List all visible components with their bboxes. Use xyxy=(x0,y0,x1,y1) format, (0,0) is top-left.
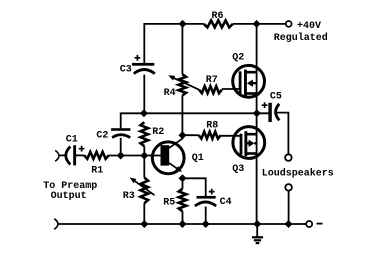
capacitor C5 xyxy=(268,103,271,122)
svg-text:R8: R8 xyxy=(206,121,218,132)
node negative supply terminal xyxy=(306,221,312,227)
input terminal arc xyxy=(55,150,59,161)
junction on top rail at Q2 drain xyxy=(253,20,261,28)
svg-text:R7: R7 xyxy=(206,75,218,86)
wire C5 output to speaker column xyxy=(276,113,289,155)
svg-text:R1: R1 xyxy=(91,165,103,176)
svg-text:C4: C4 xyxy=(220,197,232,208)
R3 wiper arrow xyxy=(132,179,155,195)
junction base line at R2/R3 xyxy=(140,152,148,160)
junction bottom rail ground xyxy=(253,220,261,228)
wire C1 to R1 xyxy=(76,154,84,156)
junction on top rail at R4 branch xyxy=(179,20,187,28)
junction node line at Q2 source xyxy=(253,109,261,117)
resistor R6 xyxy=(204,20,233,27)
wire R4 branch from top rail xyxy=(181,24,183,74)
wire R3 bottom lead xyxy=(143,203,145,224)
capacitor C3 xyxy=(132,63,154,66)
wire top supply rail xyxy=(144,23,204,25)
svg-text:C2: C2 xyxy=(96,131,108,142)
node loudspeaker terminal top xyxy=(285,154,292,161)
wire emitter node to C4 xyxy=(183,178,206,196)
wire main output column xyxy=(256,24,258,224)
resistor R7 xyxy=(199,86,222,93)
wire R8 to Q3 gate xyxy=(221,135,241,137)
wire base line R1 to Q1 xyxy=(109,155,161,157)
mosfet Q2 xyxy=(233,65,265,97)
svg-text:Loudspeakers: Loudspeakers xyxy=(262,167,334,179)
junction bottom rail R5 xyxy=(179,220,187,228)
wire top rail right of R6 xyxy=(233,23,286,25)
mosfet Q3 xyxy=(233,127,265,159)
junction base line at C2 xyxy=(117,152,125,160)
svg-text:Q1: Q1 xyxy=(192,153,204,164)
junction bottom rail R3 xyxy=(140,220,148,228)
wire collector lead xyxy=(182,135,184,139)
resistor R1 xyxy=(84,152,109,159)
wire R7 to Q2 gate xyxy=(222,88,240,90)
wire R2 bottom lead xyxy=(143,146,145,155)
wire C2 top lead xyxy=(120,113,122,129)
capacitor C4 xyxy=(197,196,216,199)
resistor R2 xyxy=(141,122,149,146)
wire C4 bottom lead xyxy=(205,207,207,224)
svg-text:C5: C5 xyxy=(270,92,282,103)
wire bootstrap node line C2 to C5 xyxy=(121,112,269,114)
svg-text:R2: R2 xyxy=(152,127,164,138)
capacitor C2 xyxy=(111,128,130,131)
junction bottom rail speaker return xyxy=(285,220,293,228)
wire C3 branch upper lead xyxy=(143,23,145,64)
wire bottom rail xyxy=(59,223,306,225)
output ground terminal arc xyxy=(54,219,58,230)
svg-text:Regulated: Regulated xyxy=(274,32,328,44)
junction node line at C3/R2 xyxy=(140,109,148,117)
node +40V terminal xyxy=(286,21,292,27)
svg-text:R3: R3 xyxy=(123,191,135,202)
svg-text:C3: C3 xyxy=(120,65,132,76)
resistor R5 xyxy=(182,178,184,188)
svg-text:C1: C1 xyxy=(66,135,78,146)
wire R8 leads xyxy=(183,134,199,136)
ground xyxy=(252,224,263,243)
minus label xyxy=(317,223,323,225)
resistor R8 xyxy=(199,132,221,139)
svg-text:Q2: Q2 xyxy=(232,53,244,64)
wire C2 bottom lead xyxy=(120,138,122,156)
wire R4 to collector node xyxy=(181,96,183,136)
svg-text:R4: R4 xyxy=(164,88,176,99)
svg-text:R5: R5 xyxy=(163,198,175,209)
resistor R3 (variable) xyxy=(143,156,145,178)
R4 wiper arrow to R7 xyxy=(170,76,199,89)
junction emitter node xyxy=(179,174,187,182)
svg-text:Q3: Q3 xyxy=(232,164,244,175)
junction bottom rail C4 xyxy=(202,220,210,228)
wire input lead xyxy=(60,154,66,156)
svg-text:R6: R6 xyxy=(212,11,224,22)
node loudspeaker terminal bottom xyxy=(285,184,292,191)
svg-text:+40V: +40V xyxy=(297,21,321,32)
svg-text:Output: Output xyxy=(51,191,87,202)
wire C3 lower lead xyxy=(143,75,145,114)
wire speaker return xyxy=(288,191,290,224)
resistor R4 (variable) xyxy=(179,74,187,95)
junction collector node xyxy=(179,131,187,139)
capacitor C1 xyxy=(66,147,71,165)
transistor Q1 xyxy=(152,139,184,174)
